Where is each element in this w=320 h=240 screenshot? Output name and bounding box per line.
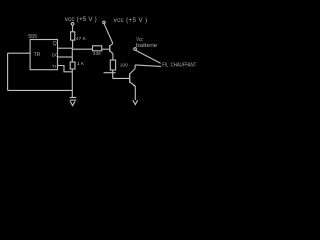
svg-text:47 K: 47 K bbox=[76, 36, 87, 42]
svg-text:555: 555 bbox=[28, 34, 37, 40]
wire TH pin staircase bbox=[58, 66, 73, 72]
wire R1 to node A bbox=[72, 40, 74, 48]
IC U1 555 body bbox=[30, 40, 57, 70]
svg-text:DC: DC bbox=[52, 53, 59, 58]
wire Q3 emitter down bbox=[134, 86, 136, 100]
wire bottom to capacitor bbox=[8, 89, 73, 91]
wire node A down to R4 bbox=[71, 48, 73, 62]
resistor R2 330 bbox=[93, 46, 102, 51]
wire node A to R2 330 bbox=[72, 48, 92, 50]
svg-text:FIL CHAUFFANT: FIL CHAUFFANT bbox=[162, 62, 197, 68]
svg-text:330: 330 bbox=[93, 51, 101, 57]
svg-text:100: 100 bbox=[120, 62, 128, 68]
transistor Q3 bbox=[130, 69, 136, 87]
wire R2 to Q2 base bbox=[102, 48, 110, 50]
wire Q pin to node A bbox=[58, 47, 73, 49]
wire left loop down bbox=[7, 53, 9, 90]
wire DC pin to main vertical bbox=[58, 56, 73, 58]
wire vcc1 to R1 bbox=[72, 25, 74, 32]
resistor R3 100 bbox=[110, 60, 115, 70]
svg-text:TH: TH bbox=[52, 64, 58, 69]
svg-text:1 K: 1 K bbox=[77, 61, 85, 67]
battery terminal Vcc batterie bbox=[134, 48, 137, 51]
svg-text:TR: TR bbox=[34, 52, 41, 58]
wire R3 down bbox=[112, 70, 114, 78]
wire Q2 collector to vcc2 bbox=[104, 24, 113, 44]
svg-text:Q: Q bbox=[53, 41, 57, 47]
transistor Q2 bbox=[110, 44, 113, 54]
power terminal vcc1 (+5V) bbox=[71, 23, 74, 26]
resistor R1 47K bbox=[71, 32, 75, 40]
ground GND2 bbox=[133, 100, 138, 104]
wire Q3 collector up bbox=[134, 65, 136, 69]
power terminal vcc2 (+5V) bbox=[103, 21, 105, 23]
capacitor C1 bbox=[70, 97, 77, 99]
svg-text:batterie: batterie bbox=[136, 43, 157, 49]
resistor R4 1K bbox=[70, 62, 75, 69]
svg-text:vcc (+5 V ): vcc (+5 V ) bbox=[65, 16, 97, 23]
wire R4 to capacitor bbox=[71, 69, 73, 97]
wire Q3 collector to filament bbox=[135, 65, 161, 67]
wire to Q3 base bbox=[113, 77, 130, 79]
svg-text:vcc (+5 V ): vcc (+5 V ) bbox=[114, 17, 148, 24]
wire battery to filament bbox=[136, 50, 161, 63]
wire stub left bbox=[104, 72, 116, 74]
wire TR pin left bbox=[8, 52, 31, 54]
wire Q2 emitter to R3 bbox=[112, 53, 114, 60]
ground GND1 bbox=[70, 101, 75, 105]
